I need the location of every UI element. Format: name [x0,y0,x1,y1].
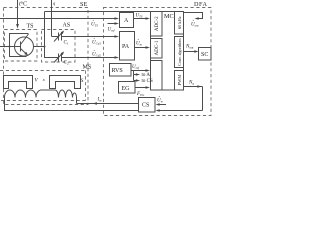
wire rail upper [45,11,151,13]
wire Uref branches [134,71,137,81]
DFA dashed box [104,8,212,116]
AS dashed box [42,30,76,63]
wire C1 feed [52,36,59,38]
svg-text:60 kHz: 60 kHz [177,16,182,29]
svg-text:Uref: Uref [132,65,140,70]
ADC-2 box [151,12,163,37]
svg-text:AS: AS [63,23,71,29]
svg-text:FEG: FEG [136,92,145,97]
wire Uw stub to CS [159,104,166,106]
osc box [175,12,184,35]
svg-text:Conv. algorithms: Conv. algorithms [177,38,182,66]
svg-text:C2: C2 [64,61,69,66]
wire Nout to SC [184,51,196,53]
conv box [175,37,184,68]
PWM box [175,71,184,91]
svg-text:V: V [35,78,39,84]
SC box [199,48,212,61]
label dots (derivative/phasor marks) [93,11,194,97]
svg-text:PA: PA [122,44,130,50]
svg-text:Nout: Nout [185,45,194,50]
MS dashed box [0,71,86,101]
svg-text:ADC-1: ADC-1 [155,40,160,55]
wire Uref stub to A [108,23,116,25]
svg-text:Uw: Uw [157,99,164,104]
wire q input [51,0,53,37]
capacitor C1 varactor [59,33,116,41]
svg-text:SC: SC [201,52,208,58]
svg-text:EG: EG [122,86,131,92]
wire coil top to CS [77,103,139,105]
counter box [151,61,163,91]
wire EG out [135,87,147,89]
transformer primary staple 1 [4,76,33,89]
svg-text:UTS: UTS [91,23,98,28]
svg-text:A: A [124,18,129,24]
svg-text:DFA: DFA [194,1,207,8]
svg-text:UCd2: UCd2 [92,53,101,58]
RVS box [110,64,132,77]
svg-text:TS: TS [27,24,34,30]
transistor TS [10,34,29,57]
svg-text:MC: MC [164,13,174,20]
EG box [119,82,136,94]
svg-text:to CS: to CS [142,79,153,84]
svg-text:MS: MS [83,65,92,71]
transformer primary staple 2 [50,76,81,89]
ADC-1 box [151,39,163,59]
wire oscillator loop [184,13,203,19]
svg-text:CS: CS [142,103,149,109]
svg-text:Im: Im [97,98,103,103]
op-amp PA box [120,32,135,61]
svg-text:S: S [81,78,84,84]
svg-text:to A: to A [142,73,151,78]
svg-text:Nq: Nq [188,81,194,86]
wire Nq [159,87,203,111]
wire t input [17,0,19,25]
wire TS base [0,46,21,48]
svg-text:RVS: RVS [112,68,123,74]
svg-text:x: x [42,77,45,82]
svg-text:SE: SE [80,1,87,8]
TS dashed box [5,30,38,62]
wire A to ADC-2 [134,18,147,20]
node base junction [9,46,11,48]
svg-text:Uref: Uref [108,28,116,33]
svg-text:t°C: t°C [19,1,27,8]
svg-text:q: q [53,1,56,6]
op-amp A box [120,13,134,28]
inductor secondary coil [5,90,77,104]
CS box [139,98,156,113]
wire rail to A [0,18,115,20]
MC box [151,12,184,91]
wire C2 feed [45,12,59,58]
svg-text:C1: C1 [64,41,69,46]
wire RVS out [131,70,147,72]
node C2 feed junction [44,46,46,48]
svg-text:ADC-2: ADC-2 [155,16,160,31]
capacitor C2 varactor [59,54,116,62]
svg-text:PWM: PWM [177,75,182,86]
svg-text:UCd1: UCd1 [92,41,101,46]
wire coil bottom to CS [5,98,139,111]
svg-text:UTS: UTS [136,14,143,19]
svg-text:Um: Um [136,42,143,47]
SE dashed box [4,8,89,105]
svg-text:Uosc: Uosc [191,23,199,28]
wire PA to ADC-1 [135,47,147,49]
